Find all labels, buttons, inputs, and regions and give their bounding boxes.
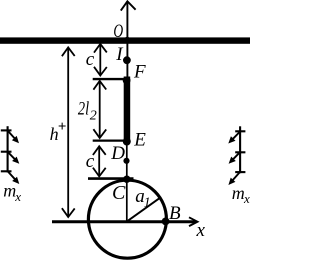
dimension c (top) arrow line [99,45,101,75]
svg-text:+: + [58,119,67,135]
node E dot [123,138,131,146]
left symbol arrow 1 [8,131,19,143]
right symbol arrow 1 [228,132,239,144]
node F dot [123,77,131,85]
svg-text:c: c [86,151,95,172]
left symbol tick 3 [1,170,12,172]
svg-text:D: D [110,143,125,164]
node I dot [123,56,131,64]
node C dot [123,176,130,183]
svg-text:B: B [169,203,181,224]
dimension h+ arrow line [67,48,69,216]
svg-text:O: O [113,21,123,42]
tick at E level [93,139,127,141]
right symbol tick 1 [235,130,245,132]
right distributed moment symbol: vertical line [239,126,241,173]
vertical axis line (lower part, E to centre of disk) [126,142,128,221]
left symbol tick 1 [1,129,12,131]
right symbol tick 2 [235,151,245,153]
svg-text:1: 1 [144,195,151,210]
circle (disk) [88,180,166,258]
svg-text:c: c [86,49,95,70]
x-axis line [52,220,196,223]
thick bar F to E [124,77,131,143]
node O dot [124,37,130,43]
dimension 2l2 arrow line [99,82,101,138]
svg-text:2l: 2l [78,98,89,119]
svg-text:x: x [14,189,21,204]
wall (fixed support) thick horizontal line [0,37,250,43]
svg-text:E: E [133,129,146,150]
svg-text:2: 2 [90,108,97,123]
left symbol arrow 2 [8,152,19,164]
svg-text:m: m [232,183,245,203]
right symbol tick 3 [235,171,245,173]
node B dot [162,218,170,226]
svg-text:x: x [196,220,206,241]
axis arrowhead up [121,1,136,10]
svg-text:C: C [112,182,126,204]
svg-text:F: F [133,62,146,83]
dimension c (bottom) arrow line [98,147,100,176]
left symbol tick 2 [1,151,12,153]
right symbol arrow 3 [228,172,239,185]
right symbol arrow 2 [229,153,240,164]
tick at F level [93,78,127,80]
x-axis arrowhead [189,217,198,226]
radius line a1 [128,198,160,221]
node D dot [123,158,129,164]
left distributed moment symbol: vertical line [7,126,9,172]
vertical axis line (upper part, O to F) [126,2,128,80]
left symbol arrow 3 [8,172,19,184]
tick at C level [88,177,134,180]
svg-text:x: x [243,191,250,206]
